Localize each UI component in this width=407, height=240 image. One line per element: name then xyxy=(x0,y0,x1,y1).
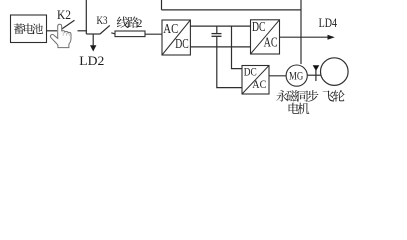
coupling bar xyxy=(315,70,317,81)
svg-text:DC: DC xyxy=(175,36,189,51)
wire resistor to AC/DC xyxy=(145,33,162,35)
wire K2 to node xyxy=(78,30,87,32)
label 飞轮 xyxy=(323,90,345,102)
svg-text:MG: MG xyxy=(289,68,303,82)
svg-text:DC: DC xyxy=(252,19,266,34)
label 蓄电池 xyxy=(14,23,43,34)
flywheel circle xyxy=(321,58,349,86)
resistor 线路2 xyxy=(115,31,145,37)
wire top bus xyxy=(162,9,302,11)
wire top bus riser xyxy=(161,0,163,10)
wire node to K3 xyxy=(86,33,100,35)
svg-text:LD4: LD4 xyxy=(319,16,338,30)
mouse cursor hand xyxy=(50,24,71,47)
battery box xyxy=(11,15,47,43)
wire capacitor leg down to U3 xyxy=(217,37,242,88)
label 线路2 xyxy=(117,17,139,29)
wire DC bus top rail xyxy=(190,25,250,27)
wire K3 contact stub xyxy=(111,33,115,34)
svg-text:K2: K2 xyxy=(57,7,71,22)
wire battery to K2 xyxy=(47,30,58,32)
arrow LD4 head xyxy=(328,35,335,40)
svg-text:AC: AC xyxy=(264,34,278,49)
capacitor C1 top lead xyxy=(216,26,218,33)
switch K2 blade xyxy=(59,20,75,31)
svg-text:LD2: LD2 xyxy=(79,54,104,68)
coupling triangle xyxy=(313,65,320,71)
motor MG circle xyxy=(286,65,307,86)
wire node riser to top edge xyxy=(85,0,87,34)
svg-text:K3: K3 xyxy=(97,13,108,27)
wire top bus drop to MG xyxy=(300,0,302,64)
wire LD2 stem xyxy=(92,34,94,46)
converter U3 DC/AC box xyxy=(242,66,269,95)
label 永磁同步电机 xyxy=(276,90,318,114)
shaft MG to flywheel xyxy=(307,74,320,76)
arrow LD2 head xyxy=(90,45,96,51)
svg-text:AC: AC xyxy=(163,21,178,36)
wire U3 to MG xyxy=(269,75,286,77)
svg-text:AC: AC xyxy=(252,77,266,91)
capacitor C1 plates xyxy=(212,33,222,35)
wire DC bus bottom rail xyxy=(190,46,250,48)
switch K3 blade xyxy=(100,25,110,34)
wire LD4 output xyxy=(280,36,329,38)
converter U2 DC/AC box xyxy=(251,20,280,54)
wire top-rail tap down to U3 xyxy=(232,26,243,69)
converter U1 AC/DC box xyxy=(162,20,190,55)
svg-text:2: 2 xyxy=(137,18,143,30)
